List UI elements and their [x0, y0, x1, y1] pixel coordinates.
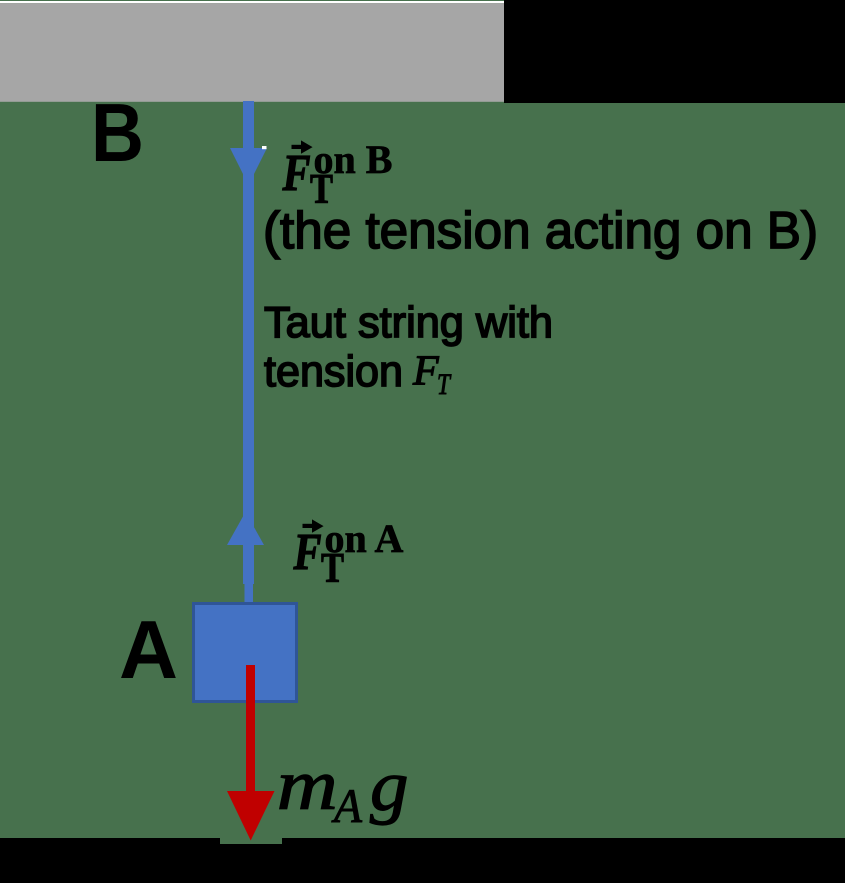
svg-text:A: A [331, 780, 363, 833]
weight arrow m_A g: shaft [246, 665, 255, 791]
ceiling block B (gray slab) [0, 3, 504, 102]
svg-text:g: g [370, 746, 409, 826]
block A (hanging mass) [194, 604, 297, 702]
transparent strip (black in source RGB): bottom [0, 838, 845, 883]
svg-text:Taut string with: Taut string with [264, 298, 553, 347]
svg-text:B: B [91, 86, 144, 179]
tension arrow on B: down arrowhead [230, 148, 267, 185]
svg-text:T: T [437, 368, 452, 401]
green collar around weight-arrow tip [220, 838, 282, 844]
transparent corner (black in source RGB): top-right [504, 0, 845, 103]
svg-text:on A: on A [325, 516, 404, 561]
label F_T^on A: vector arrow over F [303, 519, 324, 532]
tension arrow on A: tail segment [245, 584, 254, 602]
svg-text:(the tension acting on B): (the tension acting on B) [263, 202, 818, 260]
white strip above ceiling [0, 1, 504, 3]
taut string (blue) [243, 101, 254, 584]
svg-text:on B: on B [314, 137, 393, 182]
svg-text:F: F [412, 349, 439, 395]
weight arrow m_A g: arrowhead [227, 791, 275, 841]
svg-text:F: F [282, 145, 311, 202]
svg-text:tension: tension [264, 347, 403, 396]
label F_T^on B: vector arrow over F [292, 140, 313, 153]
svg-text:F: F [293, 524, 322, 581]
svg-text:A: A [119, 603, 178, 696]
svg-text:m: m [277, 745, 338, 825]
white speck artifact [262, 146, 267, 149]
tension arrow on A: up arrowhead [227, 512, 264, 545]
